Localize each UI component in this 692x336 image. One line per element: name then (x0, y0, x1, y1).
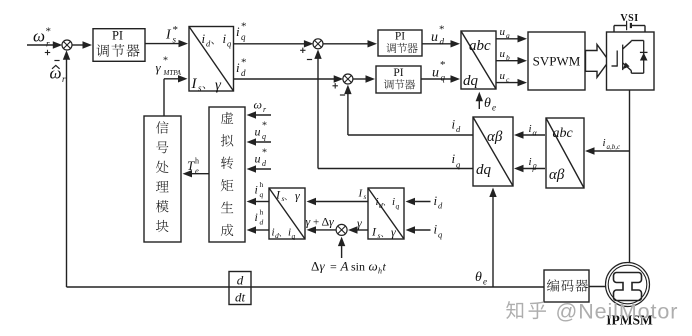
svg-text:h: h (378, 267, 382, 276)
summing junction S4 (336, 224, 347, 235)
svg-text:s: s (364, 193, 367, 201)
svg-text:u: u (432, 66, 439, 81)
wire ihd harmonic current (254, 229, 270, 231)
svg-text:i: i (603, 137, 606, 149)
svg-text:s: s (282, 194, 285, 203)
svg-text:β: β (532, 163, 537, 172)
summing junction S3 (343, 74, 353, 84)
wire Teh estimate (190, 173, 210, 175)
block PI regulator d-axis 调节器 (378, 30, 422, 56)
block encoder 编码器 (544, 270, 589, 302)
wire γ+Δγ to inverse transform (314, 229, 336, 231)
block transform id,iq to Is,γ (368, 188, 404, 239)
wire iq* reference (234, 43, 307, 45)
svg-text:a,b,c: a,b,c (607, 143, 622, 151)
svg-text:q: q (241, 32, 246, 42)
svg-text:@NeilMotor: @NeilMotor (556, 300, 679, 324)
svg-text:dq: dq (476, 162, 492, 178)
wire Is to inverse transform (314, 201, 369, 203)
wire ihq harmonic current (254, 201, 270, 203)
wire θe into dq-abc block (478, 99, 480, 109)
svg-text:dt: dt (235, 290, 246, 305)
block virtual torque generation 虚拟转矩生成 (209, 107, 245, 242)
svg-text:q: q (262, 132, 266, 141)
wire speed/position feedback bottom rail (67, 286, 545, 288)
summing junction S2 (313, 39, 323, 49)
wire Is* reference (145, 43, 181, 45)
svg-text:PI: PI (393, 67, 403, 79)
svg-text:q: q (260, 190, 264, 199)
svg-text:i: i (255, 183, 258, 197)
svg-text:=: = (330, 260, 337, 274)
svg-text:*: * (163, 56, 168, 67)
svg-text:ω: ω (33, 27, 45, 46)
svg-text:i: i (452, 151, 456, 166)
svg-text:abc: abc (553, 126, 574, 141)
block SVPWM (528, 32, 585, 90)
svg-text:SVPWM: SVPWM (533, 54, 581, 69)
svg-text:r: r (46, 39, 50, 49)
svg-text:i: i (236, 24, 240, 39)
wire speed reference input (27, 44, 55, 46)
block arrow SVPWM to inverter (586, 45, 610, 78)
wire iabc measurement tap (592, 150, 630, 152)
svg-text:i: i (529, 123, 532, 135)
wire ωr input stub to torque block (254, 114, 272, 116)
wire id stub to transform (413, 201, 431, 203)
svg-text:q: q (396, 202, 400, 211)
svg-text:θ: θ (475, 270, 482, 285)
svg-text:e: e (195, 166, 199, 176)
wire id* reference (234, 78, 337, 80)
wire iq stub to transform (413, 229, 431, 231)
wire γ*MTPA command (163, 79, 165, 116)
motor I-beam rotor glyph (614, 273, 642, 301)
wire S1 to PI speed regulator (72, 44, 85, 46)
IGBT transistor in inverter (612, 65, 618, 67)
svg-text:γ: γ (357, 216, 362, 230)
svg-text:u: u (500, 70, 506, 82)
svg-text:MTPA: MTPA (163, 69, 182, 77)
svg-text:i: i (452, 117, 456, 132)
svg-text:h: h (260, 208, 264, 217)
svg-text:u: u (500, 26, 506, 38)
svg-text:e: e (492, 103, 496, 113)
svg-text:d: d (241, 68, 246, 78)
svg-text:h: h (195, 157, 199, 166)
wire uq* input stub (254, 141, 272, 143)
block PI speed regulator 调节器 (93, 29, 145, 62)
wire inverter to motor phase (629, 90, 631, 263)
block signal processing 信号处理模块 (144, 116, 181, 242)
svg-text:d: d (379, 201, 383, 210)
svg-text:γ: γ (295, 189, 300, 203)
wire encoder to motor (589, 286, 606, 288)
watermark 知乎 @NeilMotor (506, 301, 523, 319)
svg-text:γ: γ (320, 259, 326, 274)
block VSI inverter (607, 32, 655, 90)
svg-text:αβ: αβ (549, 167, 565, 183)
svg-text:*: * (241, 57, 247, 69)
svg-text:h: h (260, 180, 264, 189)
svg-text:*: * (440, 59, 446, 71)
svg-text:d: d (237, 273, 244, 288)
svg-text:a: a (506, 31, 510, 40)
block differentiator d/dt (229, 272, 251, 305)
svg-text:d: d (275, 231, 279, 240)
svg-text:i: i (223, 31, 227, 46)
wire θe riser to αβ-dq block (492, 193, 494, 287)
block MTPA current distribution (Is,γ→id,iq) (189, 27, 234, 92)
svg-text:q: q (441, 73, 446, 83)
svg-text:s: s (198, 83, 202, 93)
svg-text:*: * (262, 148, 267, 159)
svg-text:u: u (500, 48, 506, 60)
svg-text:+: + (313, 217, 319, 229)
svg-text:u: u (255, 152, 261, 166)
svg-text:*: * (46, 26, 52, 38)
svg-text:i: i (202, 31, 206, 46)
svg-text:e: e (483, 277, 487, 287)
wire ua (496, 38, 520, 40)
svg-text:αβ: αβ (487, 129, 503, 145)
wire speed feedback riser to S1 (66, 54, 68, 287)
svg-text:VSI: VSI (620, 13, 638, 24)
svg-text:dq: dq (463, 73, 479, 89)
svg-text:d: d (260, 218, 264, 227)
motor IPMSM symbol (606, 263, 650, 307)
freewheel diode in inverter (643, 41, 645, 74)
svg-text:PI: PI (112, 29, 123, 43)
battery VSI dc link (614, 25, 626, 27)
block PI regulator q-axis 调节器 (376, 66, 421, 93)
svg-text:γ: γ (306, 215, 311, 229)
svg-text:d: d (440, 37, 445, 47)
wire Δγ injection (341, 244, 343, 258)
svg-text:*: * (439, 24, 445, 36)
svg-text:i: i (434, 222, 438, 237)
svg-text:Δ: Δ (311, 259, 319, 274)
block abc to αβ transform (546, 118, 584, 188)
svg-text:*: * (262, 121, 267, 132)
svg-text:u: u (255, 125, 261, 139)
svg-text:s: s (173, 35, 177, 45)
wire iq feedback to S2 (318, 168, 473, 170)
svg-text:θ: θ (484, 96, 491, 111)
svg-text:q: q (292, 232, 296, 241)
svg-text:r: r (62, 74, 66, 84)
svg-text:s: s (378, 231, 381, 240)
svg-text:PI: PI (395, 31, 405, 43)
svg-text:I: I (191, 76, 198, 92)
wire IGBT collector-emitter rails (631, 40, 643, 42)
wire uq* command (421, 78, 453, 80)
wire id feedback to S3 (348, 134, 473, 136)
svg-text:γ: γ (156, 60, 162, 75)
svg-text:T: T (187, 158, 195, 173)
svg-text:b: b (506, 53, 510, 62)
wire γ to summing junction S4 (355, 229, 368, 231)
svg-text:ω: ω (369, 259, 378, 274)
wire iβ (521, 168, 545, 170)
svg-text:i: i (434, 193, 438, 208)
wire ub (496, 60, 520, 62)
svg-text:u: u (431, 30, 438, 45)
svg-text:A: A (340, 259, 349, 274)
summing junction S1 (62, 40, 72, 50)
wire S2 to PI d-axis (323, 43, 370, 45)
svg-text:*: * (241, 21, 247, 33)
svg-text:ω: ω (254, 98, 262, 112)
wire uc (496, 82, 520, 84)
wire iα (521, 134, 545, 136)
svg-text:γ: γ (329, 215, 334, 229)
block αβ to dq transform (473, 117, 513, 186)
svg-text:sin: sin (351, 260, 365, 274)
svg-text:i: i (529, 156, 532, 168)
svg-text:i: i (236, 60, 240, 75)
wire ud* command (422, 43, 453, 45)
wire ud* input stub (254, 168, 272, 170)
block inverse transform Is,γ to ihd,ihq (269, 188, 305, 239)
wire S3 to PI q-axis (353, 78, 369, 80)
block dq to abc transform (461, 31, 496, 89)
svg-text:γ: γ (391, 225, 396, 239)
svg-text:abc: abc (469, 38, 491, 54)
svg-text:i: i (255, 210, 258, 224)
